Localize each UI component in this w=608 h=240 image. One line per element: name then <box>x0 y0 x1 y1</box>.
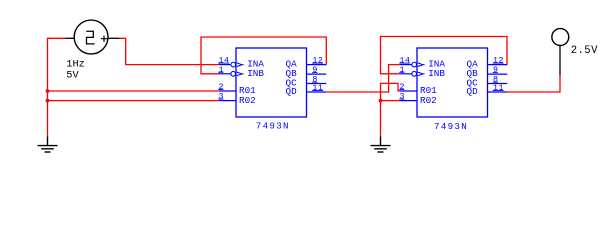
IC U2 pin 8 QC stub <box>488 83 508 85</box>
svg-text:14: 14 <box>219 57 230 66</box>
IC U2 pin 2 R01 stub <box>400 90 417 92</box>
ground GND2 <box>371 136 391 152</box>
IC U2 pin 14 INA stub <box>400 64 412 66</box>
svg-text:9: 9 <box>493 66 499 75</box>
IC U2 INB clock triangle <box>418 72 423 76</box>
svg-text:2: 2 <box>400 83 406 92</box>
clock source V1 right lead <box>108 37 119 39</box>
clock source V1 <box>74 20 108 54</box>
wire R01 of U2 to ground rail 2 <box>381 83 401 91</box>
svg-text:12: 12 <box>493 57 504 66</box>
svg-text:R02: R02 <box>420 95 437 106</box>
svg-text:2.5V: 2.5V <box>571 45 598 57</box>
svg-text:QD: QD <box>467 86 479 97</box>
wire clock to INA of U1 <box>119 38 219 64</box>
IC U2 pin 11 QD stub <box>488 91 508 93</box>
svg-text:QD: QD <box>286 86 298 97</box>
svg-text:3: 3 <box>219 93 225 102</box>
IC U2 INA clock triangle <box>418 63 423 67</box>
svg-text:7493N: 7493N <box>256 121 290 132</box>
IC U1 pin 2 R01 stub <box>219 90 236 92</box>
wire QA of U2 feedback to INB of U2 <box>381 37 508 74</box>
wire R01 of U1 to rail <box>48 90 220 92</box>
wire QD of U1 to INA of U2 <box>326 65 400 92</box>
clock source V1 square-wave glyph <box>86 31 94 44</box>
svg-text:9: 9 <box>312 66 318 75</box>
svg-text:INB: INB <box>428 68 445 79</box>
IC U1 pin 8 QC stub <box>307 83 327 85</box>
IC U2 pin 12 QA stub <box>488 64 508 66</box>
svg-text:1: 1 <box>219 66 225 75</box>
wire R02 of U2 to ground rail 2 <box>381 100 401 102</box>
wire R02 of U1 to rail <box>48 100 220 102</box>
wire left ground rail vertical <box>47 38 49 137</box>
svg-text:5V: 5V <box>66 70 79 82</box>
IC U1 pin 1 INB stub <box>219 73 231 75</box>
IC U1 pin 1 diamond <box>231 71 236 76</box>
svg-text:2: 2 <box>219 83 225 92</box>
IC U2 7493N body <box>417 48 488 117</box>
IC U2 pin 9 QB stub <box>488 73 508 75</box>
IC U1 7493N body <box>236 48 307 117</box>
clock source V1 left lead <box>66 37 75 39</box>
svg-text:7493N: 7493N <box>434 121 468 132</box>
IC U1 pin 11 QD stub <box>307 91 327 93</box>
junction dot rail2/R02 <box>379 99 383 103</box>
IC U1 pin 9 QB stub <box>307 73 327 75</box>
wire ground rail 2 vertical <box>380 83 382 137</box>
IC U1 pin 14 diamond <box>231 62 236 67</box>
ground GND1 <box>38 136 58 152</box>
IC U2 pin 3 R02 stub <box>400 100 417 102</box>
wire source left to ground rail <box>48 37 66 39</box>
svg-text:1: 1 <box>400 66 406 75</box>
svg-text:11: 11 <box>493 84 504 93</box>
IC U1 INB clock triangle <box>237 72 242 76</box>
svg-text:3: 3 <box>400 93 406 102</box>
IC U2 pin 1 INB stub <box>400 73 412 75</box>
svg-text:12: 12 <box>312 57 323 66</box>
wire QA of U1 feedback to INB of U1 <box>201 37 326 74</box>
probe lead black <box>559 46 561 75</box>
clock source V1 plus sign <box>101 36 107 42</box>
svg-text:R02: R02 <box>239 95 256 106</box>
svg-text:11: 11 <box>312 84 323 93</box>
IC U1 pin 12 QA stub <box>307 64 327 66</box>
wire QD of U2 to probe <box>507 75 560 92</box>
probe circle <box>552 29 569 46</box>
IC U1 INA clock triangle <box>237 63 242 67</box>
IC U2 pin 1 diamond <box>412 71 417 76</box>
junction dot rail/R02 <box>46 99 50 103</box>
IC U2 pin 14 diamond <box>412 62 417 67</box>
junction dot rail/R01 <box>46 89 50 93</box>
svg-text:14: 14 <box>400 57 411 66</box>
IC U1 pin 3 R02 stub <box>219 100 236 102</box>
IC U1 pin 14 INA stub <box>219 64 231 66</box>
svg-text:INB: INB <box>247 68 264 79</box>
